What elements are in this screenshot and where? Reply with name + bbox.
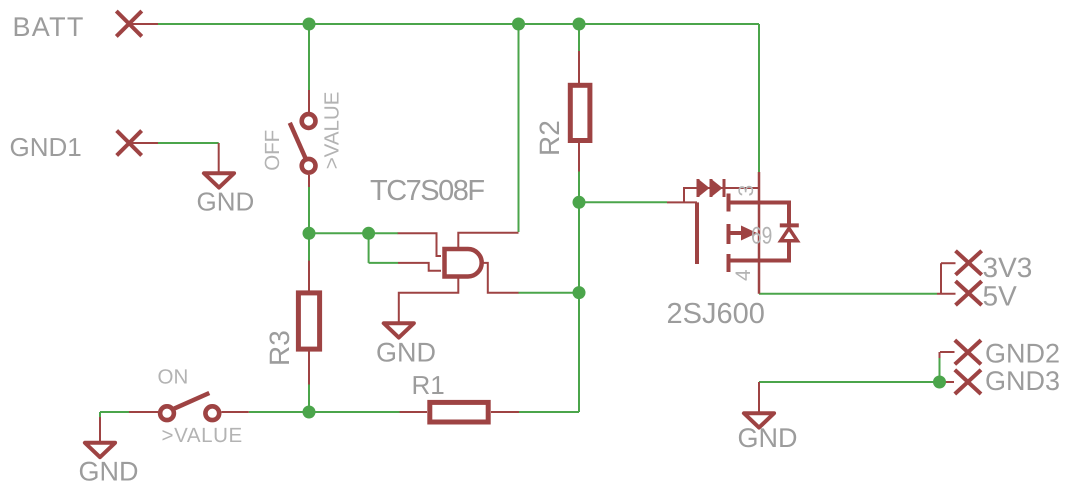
svg-text:TC7S08F: TC7S08F [370, 175, 484, 207]
svg-text:>VALUE: >VALUE [321, 92, 344, 170]
svg-text:R2: R2 [534, 120, 565, 156]
svg-text:5V: 5V [983, 281, 1018, 312]
svg-text:3V3: 3V3 [983, 252, 1033, 283]
svg-text:GND: GND [376, 337, 436, 367]
svg-text:GND3: GND3 [985, 366, 1060, 396]
svg-text:GND: GND [197, 187, 255, 217]
svg-text:GND: GND [738, 423, 798, 453]
svg-text:>VALUE: >VALUE [162, 424, 243, 447]
svg-text:GND1: GND1 [10, 132, 82, 162]
svg-text:GND: GND [79, 457, 139, 487]
svg-text:3: 3 [735, 185, 758, 197]
svg-text:GND2: GND2 [985, 339, 1060, 369]
svg-text:BATT: BATT [13, 12, 85, 42]
svg-text:ON: ON [158, 366, 189, 389]
svg-text:2SJ600: 2SJ600 [667, 298, 765, 330]
svg-text:OFF: OFF [261, 130, 284, 171]
svg-text:R3: R3 [264, 330, 295, 366]
svg-text:69: 69 [751, 223, 772, 250]
svg-text:4: 4 [732, 269, 755, 281]
svg-text:R1: R1 [412, 370, 445, 400]
